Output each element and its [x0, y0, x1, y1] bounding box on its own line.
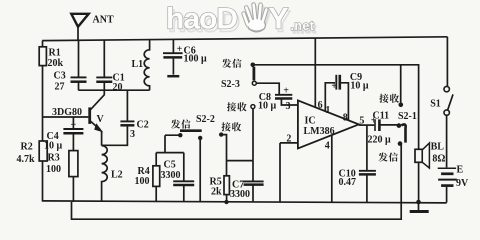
svg-text:4: 4 [325, 141, 330, 152]
svg-text:10 μ: 10 μ [258, 101, 277, 112]
capacitor C1 [103, 40, 105, 76]
battery E 9V [446, 115, 448, 167]
svg-text:R3: R3 [48, 153, 60, 164]
svg-text:Y: Y [269, 3, 289, 36]
svg-text:S2-1: S2-1 [398, 111, 417, 122]
wire tank bottom [79, 89, 150, 91]
label jie-shou (receive) [221, 122, 241, 131]
svg-text:haoD: haoD [166, 3, 237, 36]
inductor L2 [102, 146, 108, 202]
switch S1 [444, 86, 449, 91]
terminal circle (receive) [251, 105, 255, 109]
svg-text:100 μ: 100 μ [184, 54, 208, 65]
svg-text:.net: .net [291, 19, 315, 33]
svg-text:100: 100 [135, 176, 150, 187]
capacitor C6 [172, 40, 174, 53]
transistor V 3DG80 [88, 107, 91, 124]
resistor R1 [39, 47, 46, 66]
wire S1 feed from top rail [446, 37, 448, 87]
svg-text:4.7k: 4.7k [17, 154, 36, 165]
wire modulation bottom rail 2 [72, 144, 402, 219]
svg-text:V: V [97, 114, 105, 125]
resistor R3 [72, 134, 74, 151]
svg-text:3300: 3300 [161, 170, 181, 181]
svg-text:C3: C3 [54, 71, 66, 82]
svg-text:C11: C11 [373, 111, 390, 122]
label fa-xin (transmit) [171, 119, 191, 128]
wire receive bus [221, 109, 253, 176]
wire pin6 drop from top rail [314, 38, 316, 107]
capacitor C11 [374, 119, 376, 131]
svg-text:L2: L2 [111, 170, 123, 181]
svg-text:2k: 2k [211, 187, 222, 198]
svg-text:S2-3: S2-3 [221, 79, 240, 90]
svg-text:R2: R2 [21, 142, 33, 153]
resistor R5 [224, 176, 229, 195]
svg-text:1: 1 [325, 105, 330, 116]
svg-text:+: + [177, 44, 183, 55]
svg-text:S2-2: S2-2 [196, 114, 215, 125]
svg-text:L1: L1 [132, 59, 144, 70]
capacitor C3 [78, 40, 80, 76]
resistor R4 [155, 153, 157, 166]
capacitor C4 [72, 117, 74, 128]
svg-text:3300: 3300 [230, 189, 250, 200]
label fa-xin (transmit) [378, 152, 398, 161]
pin 1 / C9 loop / pin 8 [325, 83, 348, 121]
capacitor C10 [366, 125, 368, 170]
svg-text:5: 5 [359, 115, 364, 126]
wire R4/C5 link [156, 135, 184, 152]
speaker BL [415, 149, 422, 162]
svg-text:BL: BL [431, 142, 445, 153]
ground [416, 200, 421, 205]
resistor R2 [39, 141, 47, 161]
logo haoDY.net [168, 5, 317, 38]
inductor L1 [144, 40, 149, 90]
svg-text:E: E [457, 165, 464, 176]
capacitor C8 [256, 83, 279, 94]
svg-text:20k: 20k [48, 58, 64, 69]
op-amp U1 IC LM386 [298, 100, 359, 148]
wire left rail [42, 41, 44, 202]
wire base [43, 116, 89, 118]
svg-text:220 μ: 220 μ [368, 135, 392, 146]
svg-text:8: 8 [343, 112, 348, 123]
svg-text:ANT: ANT [93, 14, 114, 25]
label jie-shou (receive) [379, 94, 399, 103]
svg-text:2: 2 [286, 134, 291, 145]
svg-text:R1: R1 [49, 48, 61, 59]
svg-text:C5: C5 [164, 160, 176, 171]
svg-text:+: + [283, 86, 289, 97]
label fa-xin (transmit) [222, 59, 242, 68]
svg-text:LM386: LM386 [304, 126, 335, 137]
svg-text:S1: S1 [430, 98, 441, 109]
svg-text:9V: 9V [456, 178, 469, 189]
svg-text:+: + [331, 81, 337, 92]
svg-text:27: 27 [55, 82, 65, 93]
svg-text:0.47: 0.47 [339, 177, 357, 188]
label jie-shou (receive) [227, 102, 247, 111]
switch S2-3 [251, 63, 256, 68]
svg-text:C2: C2 [137, 120, 149, 131]
svg-text:10 μ: 10 μ [44, 141, 63, 152]
pin 2 wire [280, 143, 298, 202]
wire emitter [101, 131, 103, 146]
svg-text:3: 3 [286, 101, 291, 112]
svg-text:10 μ: 10 μ [350, 80, 369, 91]
wire mid rail to speaker [253, 65, 419, 150]
switch S2-2 [180, 129, 202, 132]
svg-text:+: + [71, 120, 77, 131]
svg-text:8Ω: 8Ω [432, 153, 445, 164]
wire top V+ rail [42, 37, 447, 41]
switch S2-1 [399, 103, 404, 108]
svg-text:6: 6 [318, 100, 323, 111]
svg-text:20: 20 [113, 82, 123, 93]
svg-text:100: 100 [46, 164, 61, 175]
svg-text:3: 3 [130, 129, 135, 140]
pin 4 wire [331, 135, 333, 202]
wire ground bottom rail [43, 201, 447, 203]
capacitor C7 [252, 161, 254, 181]
pin 5 output wire [359, 124, 375, 126]
capacitor C2 [126, 90, 128, 121]
wire S2-1 upper contact drop [400, 65, 402, 103]
capacitor C5 [183, 153, 185, 181]
antenna ANT [77, 27, 79, 41]
